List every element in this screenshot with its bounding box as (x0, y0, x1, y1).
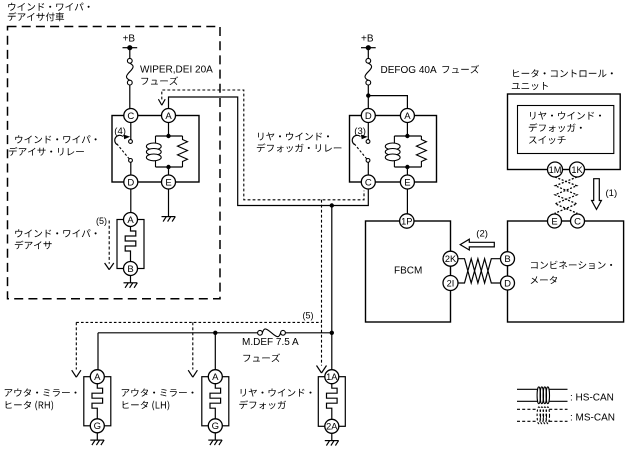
relay2 terminal D (361, 109, 375, 123)
relay1 terminal C (124, 109, 138, 123)
terminal 1P (400, 214, 414, 228)
wire junction to relay2 D (367, 96, 369, 109)
svg-text:WIPER,DEI 20A: WIPER,DEI 20A (140, 65, 213, 76)
svg-text:2K: 2K (445, 254, 457, 264)
legend HS-CAN symbol (517, 388, 538, 390)
relay coil feed wire (406, 123, 408, 137)
node: coil bottom junction (405, 165, 409, 169)
wire down to rear defogger 1A (331, 333, 333, 370)
dashed arrow into rear defogger 1A (317, 366, 327, 374)
outer mirror heater (RH) label (5, 388, 77, 396)
heater element (resistive meander) (326, 384, 337, 420)
wire +B to fuse (129, 48, 131, 59)
svg-text:A: A (94, 372, 101, 383)
terminal E (meter) (548, 214, 562, 228)
ground (325, 441, 339, 446)
svg-text:1P: 1P (401, 216, 412, 226)
relay1 terminal D (124, 175, 138, 189)
svg-text:(5): (5) (303, 310, 314, 320)
relay switch fixed contact (upper) (367, 123, 369, 140)
svg-text:D: D (127, 177, 134, 188)
relay resistor (416, 136, 426, 167)
ground (124, 283, 138, 288)
node: junction on relay2 C wire (330, 203, 334, 207)
relay1 terminal E (162, 175, 176, 189)
rear window defogger switch box (518, 106, 614, 154)
dashed wire: option feed down to rear defogger (321, 200, 323, 366)
svg-text:D: D (365, 111, 372, 122)
node: feed split to D and A (366, 93, 370, 97)
relay switch fixed contact (lower) (366, 159, 370, 163)
ground wire (96, 433, 98, 440)
dashed option frame (wiper-deicer equipped cars) (8, 27, 221, 299)
svg-text:E: E (404, 177, 410, 188)
rear window defogger relay label (258, 132, 329, 140)
svg-text:+B: +B (123, 34, 136, 45)
ground (90, 440, 104, 445)
relay coil/resistor bottom rail (394, 166, 421, 168)
heater element (resistive meander) (125, 227, 136, 262)
heater element box (318, 377, 345, 427)
wire DEFOG fuse to junction (367, 85, 369, 96)
relay switch blade (dashed) (354, 144, 368, 160)
svg-text:+B: +B (361, 34, 374, 45)
svg-text:E: E (551, 216, 557, 227)
legend MS-CAN symbol (517, 408, 538, 410)
svg-text:A: A (165, 111, 172, 122)
ground wire (130, 276, 132, 283)
svg-text:FBCM: FBCM (394, 265, 422, 276)
wire +B to DEFOG fuse (367, 48, 369, 59)
svg-text:A: A (127, 215, 134, 226)
heater control unit label (513, 69, 613, 77)
node: coil bottom junction (166, 165, 170, 169)
heater element (resistive meander) (92, 384, 103, 419)
terminal D (meter) (501, 276, 515, 290)
svg-text:: MS-CAN: : MS-CAN (570, 412, 615, 423)
relay switch fixed contact (lower) (129, 159, 133, 163)
outer mirror heater (LH) label (122, 388, 194, 396)
heater element box (202, 377, 229, 426)
ground (208, 440, 222, 445)
node: coil top junction (166, 134, 170, 138)
FBCM box (366, 221, 451, 322)
svg-text:(5): (5) (96, 216, 107, 226)
heater element (resistive meander) (210, 384, 221, 419)
relay coil feed wire (168, 123, 170, 137)
relay2 terminal E (400, 175, 414, 189)
dashed drop to mirror heater RH (75, 322, 77, 369)
svg-text:DEFOG 40A: DEFOG 40A (381, 65, 437, 76)
svg-text:C: C (365, 177, 372, 188)
wire relay1 E to ground (168, 189, 170, 217)
switch box label (530, 112, 601, 120)
rear window defogger label (241, 389, 312, 397)
svg-text:1A: 1A (326, 372, 338, 382)
terminal A (124, 213, 138, 227)
relay1 terminal A (162, 109, 176, 123)
relay switch fixed contact (upper) (130, 123, 132, 140)
relay switch actuation arc arrow (352, 135, 360, 144)
svg-text:M.DEF 7.5 A: M.DEF 7.5 A (242, 337, 299, 348)
terminal B (meter) (501, 252, 515, 266)
svg-text:(1): (1) (606, 188, 618, 199)
relay resistor (178, 136, 188, 167)
heater element box (84, 377, 111, 426)
ground wire (331, 433, 333, 440)
fuse M.DEF 7.5A (258, 329, 286, 337)
wire down to RH heater A (97, 333, 99, 370)
terminal 2I (443, 276, 458, 291)
svg-text:1M: 1M (549, 165, 562, 175)
relay coil/resistor bottom rail (156, 166, 183, 168)
fuse DEFOG 40A (365, 58, 372, 85)
relay switch actuation arc arrow (115, 135, 123, 144)
dashed drop to mirror heater LH (192, 322, 194, 369)
solid wire: relay1 A to relay2 C (169, 97, 369, 206)
combination meter label (531, 261, 612, 269)
wire relay1 D to deicer A (130, 189, 132, 213)
relay box (350, 116, 437, 183)
svg-text:G: G (212, 421, 219, 432)
svg-text:A: A (212, 372, 219, 383)
terminal G (208, 419, 222, 433)
wire fuse to relay terminal C (129, 85, 131, 109)
terminal 2K (443, 251, 458, 266)
relay2 terminal C (361, 175, 375, 189)
ground wire (214, 433, 216, 440)
node A1 dashed feed arrowhead (158, 99, 165, 105)
wire down to LH heater A (214, 333, 216, 370)
HS-CAN twisted pair (FBCM to combination meter) (458, 259, 500, 283)
heater element box (117, 220, 144, 269)
terminal B (124, 262, 138, 276)
relay coil/resistor top rail (156, 135, 183, 137)
svg-text:2A: 2A (326, 422, 338, 432)
fuse WIPER,DEI 20A (126, 58, 133, 85)
wiper deicer relay label (15, 135, 96, 143)
svg-text:1K: 1K (571, 165, 583, 175)
svg-text:G: G (94, 421, 101, 432)
dashed option wire arrow into deicer (108, 221, 110, 264)
wire junction to relay2 A (368, 96, 407, 109)
relay coil (inductor) (393, 136, 395, 143)
relay switch blade (dashed) (117, 144, 131, 160)
svg-text:A: A (404, 111, 411, 122)
node: M.DEF line to rear defogger (330, 331, 334, 335)
window wiper deicer label (15, 229, 96, 237)
svg-text:B: B (127, 264, 133, 275)
wire: junction down to M.DEF line (331, 206, 333, 333)
relay coil (inductor) (155, 136, 157, 143)
terminal G (90, 419, 104, 433)
arrow (1) (592, 179, 602, 210)
terminal C (meter) (571, 214, 585, 228)
terminal 1M (548, 162, 563, 177)
relay box (112, 116, 199, 183)
svg-text:2I: 2I (447, 278, 455, 288)
node: M.DEF line to LH heater (213, 331, 217, 335)
heater control unit box (508, 94, 621, 170)
ground (relay1 E) (162, 217, 176, 222)
svg-text:C: C (574, 216, 581, 227)
relay2 terminal A (400, 109, 414, 123)
terminal 1K (570, 162, 585, 177)
terminal A (208, 370, 222, 384)
wire relay2 E to FBCM 1P (406, 189, 408, 214)
svg-text:B: B (504, 254, 510, 265)
svg-text:C: C (127, 111, 134, 122)
svg-text:D: D (504, 278, 511, 289)
top-left note: with window wiper deicer (car) label (8, 3, 89, 11)
svg-text:: HS-CAN: : HS-CAN (570, 392, 614, 403)
combination meter box (508, 221, 624, 322)
MS-CAN twisted pair (heater control unit to combination meter) (555, 177, 577, 213)
terminal 2A (325, 419, 339, 433)
dotted option wire (5): distribution to heaters (76, 321, 321, 323)
M.DEF feed line (98, 332, 258, 334)
terminal A (90, 370, 104, 384)
svg-text:E: E (165, 177, 171, 188)
terminal 1A (325, 370, 339, 384)
relay coil/resistor top rail (394, 135, 421, 137)
node: coil top junction (405, 134, 409, 138)
svg-text:(2): (2) (476, 228, 488, 239)
dashed wire: deicer option feed from defog relay C (162, 90, 364, 200)
